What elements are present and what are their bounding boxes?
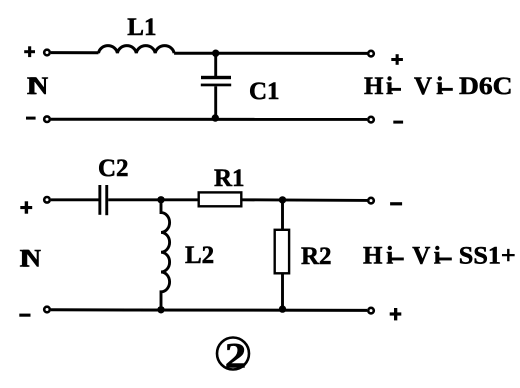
svg-text:D6C: D6C [459,73,513,100]
wire [241,198,367,201]
node junction (R2 / bottom wire) [279,305,286,312]
inductor L2 [161,200,170,310]
svg-text:L1: L1 [127,14,156,41]
svg-text:C1: C1 [249,78,280,105]
wire (bottom return, bottom circuit) [51,308,367,312]
svg-text:R1: R1 [214,165,245,192]
svg-text:i: i [434,243,441,270]
label - (top circuit input) [26,117,36,120]
svg-text:SS1+: SS1+ [459,243,516,270]
wire [214,53,217,76]
svg-text:N: N [30,73,48,100]
capacitor C2 [98,185,108,215]
terminal OUT+ (top circuit) [368,51,374,57]
label Hi-Vi SS1+ [363,243,516,270]
terminal IN+ (top circuit) [44,50,50,56]
node junction (R1 / R2 / output) [279,196,286,203]
inductor L1 [99,46,175,54]
svg-text:i: i [386,243,393,270]
capacitor C1 [201,76,231,86]
wire [281,273,284,309]
node junction (top wire / C1) [212,50,219,57]
wire [174,52,367,55]
svg-text:V: V [414,73,432,100]
terminal OUT+ (bottom circuit) [368,308,374,314]
svg-text:R2: R2 [301,243,332,270]
svg-text:C2: C2 [98,155,129,182]
label + (bottom circuit input) [20,201,32,213]
terminal OUT- (bottom circuit) [368,198,374,204]
wire [51,51,99,54]
wire [108,198,199,201]
node junction (C2 / L2 / R1) [157,196,164,203]
svg-text:2: 2 [225,335,247,375]
svg-text:H: H [363,243,383,270]
wire [281,200,284,230]
wire [51,198,99,201]
svg-text:N: N [23,245,41,272]
figure number 2 (circled) [217,338,249,370]
label Hi-Vi D6C [364,73,513,100]
label - (bottom circuit input) [19,314,30,317]
label - (top circuit output) [393,121,403,124]
resistor R2 [275,230,289,273]
terminal IN- (bottom circuit) [44,307,50,313]
node junction (L2 / bottom wire) [157,306,164,313]
svg-text:i: i [386,73,393,100]
label + (bottom circuit output) [390,308,402,320]
wire [214,86,217,119]
resistor R1 [199,192,242,206]
terminal OUT- (top circuit) [368,117,374,123]
label + (top circuit input) [24,46,35,57]
svg-text:L2: L2 [185,242,214,269]
label + (top circuit output) [391,54,403,65]
terminal IN- (top circuit) [44,116,50,122]
node junction (bottom wire / C1) [212,114,219,121]
svg-text:i: i [436,73,443,100]
svg-text:H: H [364,73,384,100]
svg-text:V: V [412,243,430,270]
wire (bottom return, top circuit) [51,118,367,121]
label - (bottom circuit output) [390,202,402,205]
terminal IN+ (bottom circuit) [44,197,50,203]
